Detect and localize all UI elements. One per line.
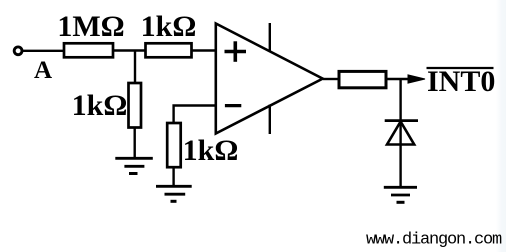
wire diode to ground: [399, 121, 401, 187]
junction to diode branch: [399, 79, 401, 121]
op-amp - input marker: [225, 104, 241, 107]
resistor R4 1kΩ (vertical, right): [167, 123, 181, 167]
op-amp positive supply pin stub: [269, 23, 271, 52]
net label INT0 with overline: [427, 65, 496, 98]
svg-text:1kΩ: 1kΩ: [72, 89, 128, 122]
terminal A: [14, 47, 22, 55]
junction node between R1 and R2: [134, 51, 136, 84]
wire op-amp - input: [174, 106, 216, 124]
svg-text:A: A: [34, 57, 52, 84]
wire R3 to ground: [133, 128, 135, 159]
svg-text:1kΩ: 1kΩ: [183, 134, 239, 167]
svg-text:INT0: INT0: [427, 65, 495, 98]
arrowhead to INT0: [408, 75, 425, 83]
wire R2 to op-amp + input: [192, 49, 216, 51]
wire R5 to arrow: [386, 78, 409, 80]
op-amp negative supply pin stub: [269, 105, 271, 135]
diode D1 triangle (anode, pointing up): [387, 122, 414, 145]
wire R4 to ground: [172, 167, 174, 186]
op-amp U1 triangle: [216, 24, 323, 134]
ground (below diode): [384, 187, 417, 202]
svg-text:1kΩ: 1kΩ: [141, 10, 197, 43]
op-amp + input marker: [225, 41, 247, 62]
resistor R3 1kΩ (vertical, left): [129, 83, 142, 128]
svg-text:1MΩ: 1MΩ: [57, 10, 124, 43]
wire R1 to R2: [113, 49, 146, 51]
resistor R2 1kΩ: [146, 43, 192, 57]
resistor R5 (output, unlabeled): [339, 71, 386, 87]
diode D1 cathode bar: [385, 119, 418, 122]
svg-text:www.diangon.com: www.diangon.com: [366, 231, 502, 250]
wire A to R1: [23, 50, 64, 52]
wire op-amp output to R5: [323, 78, 339, 80]
resistor R1 1MΩ: [64, 43, 113, 57]
ground (below R4): [156, 186, 192, 201]
ground (below R3): [115, 158, 153, 173]
right page-edge tint: [496, 0, 506, 252]
